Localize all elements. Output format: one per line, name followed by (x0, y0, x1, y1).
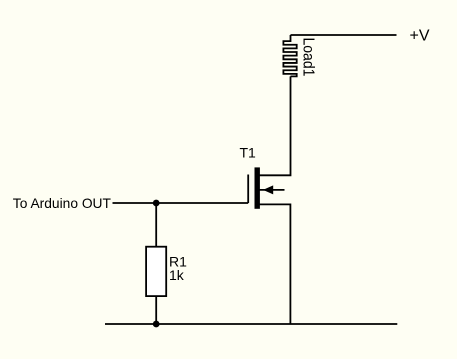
wire source to ground rail (259, 204, 290, 324)
svg-text:+V: +V (410, 28, 430, 45)
wire +V rail (291, 34, 397, 36)
inductor Load1 (283, 35, 296, 76)
junction node R1/ground (153, 321, 160, 328)
wire gate from Arduino (113, 202, 249, 204)
junction node gate/R1 (153, 200, 160, 207)
svg-text:T1: T1 (240, 145, 257, 161)
ground rail wire (105, 323, 397, 325)
wire R1 bottom to ground rail (155, 296, 157, 324)
svg-text:Load1: Load1 (299, 38, 316, 77)
resistor R1 body (146, 247, 166, 296)
transistor T1 bulk arrow line (259, 189, 284, 191)
wire gate node to R1 top (155, 203, 157, 247)
transistor T1 channel bar (255, 167, 260, 208)
wire coil bottom to drain (259, 76, 290, 175)
transistor T1 arrow head (263, 185, 273, 194)
transistor T1 gate line (247, 175, 249, 204)
svg-text:1k: 1k (169, 267, 185, 283)
svg-text:To Arduino OUT: To Arduino OUT (13, 196, 112, 211)
